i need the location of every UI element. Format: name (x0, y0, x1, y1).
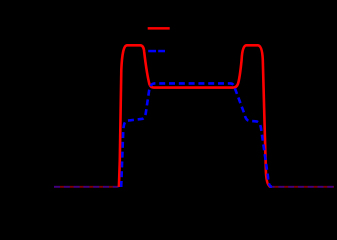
baseline right segment: dim blue dashes (269, 186, 335, 188)
baseline left segment: dim red solid (54, 186, 118, 188)
legend blue dashed sample (dash 2) (158, 50, 165, 53)
legend red solid sample (148, 27, 170, 30)
baseline left segment: dim blue dashes (54, 186, 119, 188)
baseline right segment: dim red solid (269, 186, 334, 188)
legend blue dashed sample (dash 1) (148, 50, 156, 53)
red solid curve (pulse with two peaks) (119, 45, 271, 187)
blue dashed curve (pulse with shoulders) (121, 83, 272, 187)
